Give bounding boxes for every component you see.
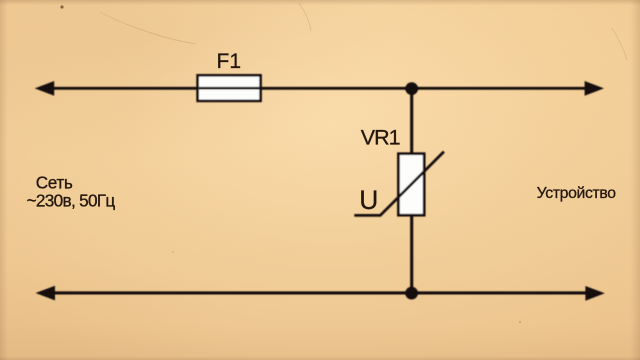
wire: bottom line <box>51 291 588 294</box>
varistor VR1 diagonal stroke <box>354 152 444 216</box>
arrowhead bottom-right <box>585 286 604 301</box>
svg-text:VR1: VR1 <box>361 126 400 150</box>
svg-text:Устройство: Устройство <box>537 185 617 202</box>
varistor VR1 body <box>398 154 424 216</box>
svg-text:U: U <box>359 185 378 215</box>
junction node bottom <box>405 287 418 300</box>
fuse F1 body <box>198 75 261 101</box>
wire: fuse element line <box>199 87 260 90</box>
arrowhead top-right <box>585 81 604 96</box>
arrowhead top-left <box>35 81 55 96</box>
svg-text:~230в, 50Гц: ~230в, 50Гц <box>27 190 116 210</box>
svg-text:F1: F1 <box>217 50 242 73</box>
wire: top line <box>50 87 588 90</box>
arrowhead bottom-left <box>36 286 56 301</box>
wire: vertical branch <box>410 87 413 292</box>
junction node top <box>405 82 418 95</box>
